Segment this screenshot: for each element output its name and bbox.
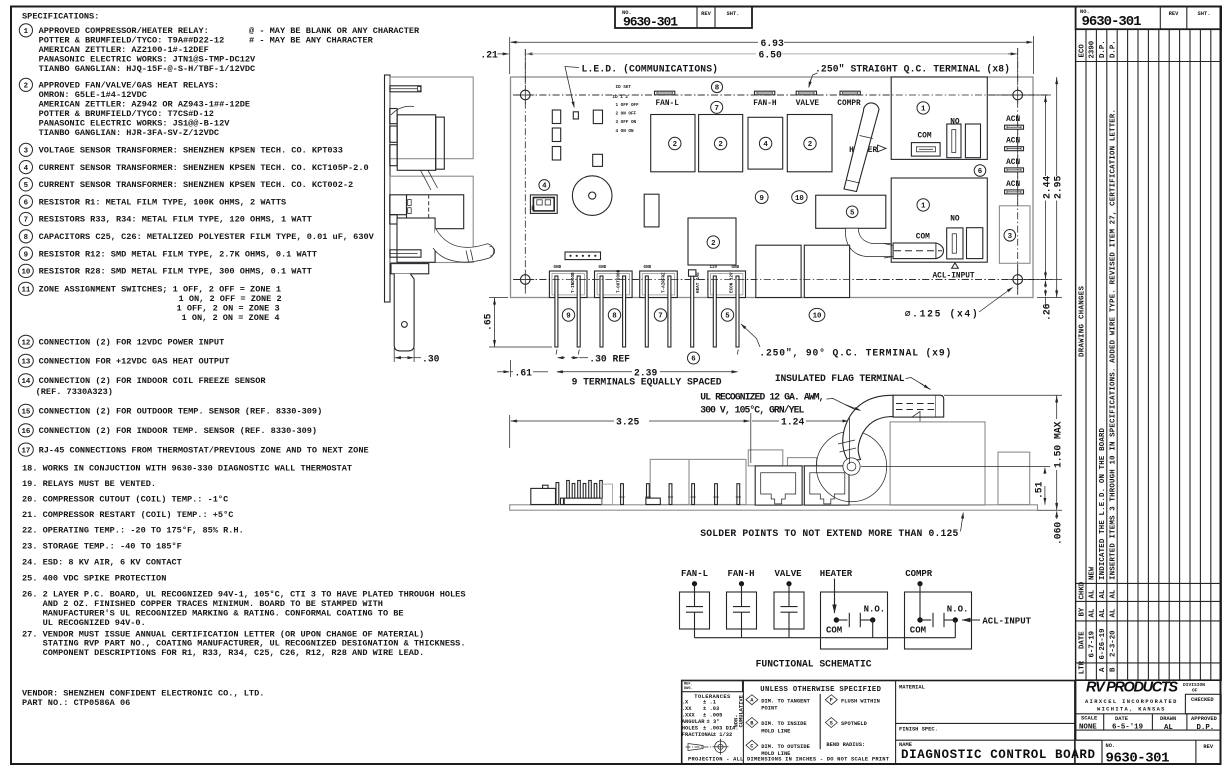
node ACL-INPUT <box>962 619 980 621</box>
svg-text:4: 4 <box>763 141 768 149</box>
svg-text:3: 3 <box>1008 233 1013 241</box>
svg-text:HOLES: HOLES <box>682 726 699 732</box>
svg-text:D.P.: D.P. <box>1197 724 1215 732</box>
svg-text:COMPONENT DESCRIPTIONS FOR R1,: COMPONENT DESCRIPTIONS FOR R1, R33, R34,… <box>43 648 425 658</box>
svg-text:RJ-45 CONNECTIONS FROM THERMOS: RJ-45 CONNECTIONS FROM THERMOSTAT/PREVIO… <box>39 445 369 455</box>
wire loop dome <box>816 431 886 501</box>
svg-text:1 ON, 2 ON = ZONE 4: 1 ON, 2 ON = ZONE 4 <box>182 313 280 323</box>
svg-text:RELAYS MUST BE VENTED.: RELAYS MUST BE VENTED. <box>43 479 156 489</box>
svg-text:11: 11 <box>21 287 30 295</box>
pin tick marks <box>556 350 557 355</box>
svg-text:(REF. 7330A323): (REF. 7330A323) <box>36 387 113 397</box>
company block <box>1076 679 1222 681</box>
projection symbols <box>688 744 703 751</box>
svg-text:.30: .30 <box>422 354 440 365</box>
QC tab lower profile <box>390 250 421 257</box>
wire <box>954 620 956 638</box>
dim 2.44 / 2.95 right <box>991 94 1051 96</box>
svg-text:D.P.: D.P. <box>1110 40 1118 58</box>
svg-text:RESISTOR R12: SMD METAL FILM T: RESISTOR R12: SMD METAL FILM TYPE, 2.7K … <box>39 249 317 259</box>
svg-text:DRAWN: DRAWN <box>1160 716 1176 722</box>
svg-text:ID SET: ID SET <box>616 85 632 90</box>
svg-text:12V: 12V <box>710 265 718 270</box>
svg-text:APPROVED FAN/VALVE/GAS HEAT RE: APPROVED FAN/VALVE/GAS HEAT RELAYS: <box>39 81 220 91</box>
svg-text:9: 9 <box>24 251 28 259</box>
svg-text:PANASONIC ELECTRIC WORKS: JS1@: PANASONIC ELECTRIC WORKS: JS1@@-B-12V <box>39 119 231 129</box>
svg-text:ID 1 2: ID 1 2 <box>613 95 629 100</box>
svg-text:MATERIAL: MATERIAL <box>899 685 925 691</box>
contact bars <box>920 619 931 621</box>
dim 6.50 <box>526 53 534 55</box>
svg-text:WICHITA, KANSAS: WICHITA, KANSAS <box>1097 707 1165 713</box>
relay block right elevation <box>890 422 985 505</box>
svg-text:AMERICAN ZETTLER: AZ942 OR AZ9: AMERICAN ZETTLER: AZ942 OR AZ943-1##-12D… <box>39 100 250 110</box>
connector T-INDOOR <box>549 271 587 298</box>
svg-text:6-5-'19: 6-5-'19 <box>1112 724 1143 732</box>
svg-text:1: 1 <box>24 28 29 36</box>
two square components bottom middle <box>756 245 801 297</box>
centerline overlays <box>513 94 1048 96</box>
svg-text:T-INDOOR: T-INDOOR <box>571 272 576 293</box>
svg-text:.X: .X <box>682 700 689 706</box>
svg-text:.250" STRAIGHT Q.C. TERMINAL (: .250" STRAIGHT Q.C. TERMINAL (x8) <box>815 64 1010 75</box>
mounting holes x4 <box>521 90 531 100</box>
svg-text:16: 16 <box>21 428 30 436</box>
svg-text:BEND RADIUS:: BEND RADIUS: <box>826 742 865 748</box>
svg-text:COM: COM <box>916 233 930 241</box>
svg-text:DWG.: DWG. <box>684 687 693 691</box>
small component rects left <box>552 110 560 124</box>
svg-text:SHT.: SHT. <box>1198 11 1211 17</box>
svg-text:AIRXCEL INCORPORATED: AIRXCEL INCORPORATED <box>1085 699 1177 705</box>
svg-text:NONE: NONE <box>1079 724 1097 732</box>
svg-text:.26: .26 <box>1042 303 1053 321</box>
svg-text:CHECKED: CHECKED <box>1191 697 1214 703</box>
wire <box>694 584 696 607</box>
svg-text:2: 2 <box>718 141 722 149</box>
wire <box>741 584 743 607</box>
svg-text:± 1/32: ± 1/32 <box>713 732 732 738</box>
svg-text:ACN: ACN <box>1006 181 1020 189</box>
svg-text:DIVISION: DIVISION <box>1183 682 1205 688</box>
svg-text:CONNECTION (2) FOR OUTDOOR TEM: CONNECTION (2) FOR OUTDOOR TEMP. SENSOR … <box>39 407 323 417</box>
bracket hole <box>402 322 408 328</box>
flag terminal into COM <box>893 243 936 259</box>
svg-text:1 ON, 2 OFF = ZONE 2: 1 ON, 2 OFF = ZONE 2 <box>179 294 282 304</box>
wire <box>788 584 790 607</box>
svg-text:HEATER: HEATER <box>820 569 853 579</box>
ACN terminal 1 <box>1005 125 1024 129</box>
svg-text:1 OFF, 2 ON = ZONE 3: 1 OFF, 2 ON = ZONE 3 <box>177 304 280 314</box>
ref dwg box <box>682 681 743 692</box>
circled 6 ACN <box>974 165 986 177</box>
svg-text:6: 6 <box>691 356 696 364</box>
svg-text:COMPRESSOR RESTART (COIL) TEMP: COMPRESSOR RESTART (COIL) TEMP.: +5°C <box>43 510 234 520</box>
wire <box>741 612 743 638</box>
svg-text:VALVE: VALVE <box>775 569 803 579</box>
contact bars <box>836 619 847 621</box>
svg-text:COMPR: COMPR <box>905 569 933 579</box>
lower relay body profile <box>397 218 435 262</box>
relay contact COMPR <box>905 592 972 649</box>
svg-text:1 OFF OFF: 1 OFF OFF <box>616 103 640 108</box>
material / finish / name boxes <box>896 722 1075 724</box>
svg-text:± 3°: ± 3° <box>707 719 720 725</box>
ext lines <box>509 37 511 74</box>
circled refs 9 10 <box>755 191 768 204</box>
ACN terminal 2 <box>1005 147 1024 151</box>
relay K4 compr <box>787 115 832 172</box>
svg-text:6: 6 <box>978 168 983 176</box>
svg-text:2 ON OFF: 2 ON OFF <box>616 111 637 116</box>
svg-text:2390: 2390 <box>1089 40 1097 58</box>
bottom number box <box>1101 740 1103 764</box>
mounting bracket <box>391 264 429 274</box>
left small component <box>531 488 556 504</box>
circled refs 8 7 <box>711 81 722 92</box>
dim .61 / 2.39 <box>510 360 512 377</box>
svg-text:19.: 19. <box>22 479 37 489</box>
ground wire tube <box>843 395 893 460</box>
svg-text:SOLDER POINTS TO NOT EXTEND MO: SOLDER POINTS TO NOT EXTEND MORE THAN 0.… <box>700 528 958 539</box>
relay block profile (gray) <box>390 77 473 159</box>
wire common bus <box>695 637 956 639</box>
QC terminal tab profile <box>390 86 421 92</box>
ACN terminal profiles <box>390 109 397 124</box>
NO terminal lower <box>947 228 963 259</box>
svg-text:5: 5 <box>725 313 730 321</box>
svg-text:DIM. TO TANGENT: DIM. TO TANGENT <box>761 698 810 704</box>
svg-text:B: B <box>1110 667 1118 672</box>
heater wire below transformer <box>845 228 893 256</box>
svg-text:± .03: ± .03 <box>703 706 719 712</box>
heater wire profile <box>421 170 438 190</box>
svg-text:A: A <box>1099 667 1107 672</box>
svg-text:17: 17 <box>21 447 30 455</box>
svg-text:9630-301: 9630-301 <box>1082 14 1142 30</box>
svg-text:AL: AL <box>1099 608 1107 617</box>
svg-text:VALVE: VALVE <box>796 100 820 108</box>
svg-text:N.O.: N.O. <box>947 605 969 615</box>
svg-text:REV: REV <box>701 11 711 17</box>
svg-text:.51: .51 <box>1034 481 1045 499</box>
svg-text:2: 2 <box>673 141 677 149</box>
svg-text:INSULATED FLAG TERMINAL: INSULATED FLAG TERMINAL <box>775 373 905 384</box>
svg-text:SPOTWELD: SPOTWELD <box>841 721 868 727</box>
svg-text:2: 2 <box>808 141 812 149</box>
top right number box <box>1076 7 1222 30</box>
svg-text:AL: AL <box>1164 724 1173 732</box>
ACN terminal 4 <box>1005 190 1024 194</box>
svg-text:GND: GND <box>554 265 562 270</box>
.250 90deg QC label <box>741 324 757 339</box>
svg-text:DATE: DATE <box>1115 716 1129 722</box>
svg-text:COMPR: COMPR <box>837 100 861 108</box>
svg-text:25.: 25. <box>22 574 37 584</box>
svg-text:CAPACITORS C25, C26: METALIZED: CAPACITORS C25, C26: METALIZED POLYESTER… <box>39 232 375 242</box>
transformer profile <box>407 195 464 229</box>
svg-text:CONNECTION (2) FOR 12VDC POWER: CONNECTION (2) FOR 12VDC POWER INPUT <box>39 338 225 348</box>
svg-text:INDICATED THE L.E.D. ON THE BO: INDICATED THE L.E.D. ON THE BOARD <box>1099 427 1107 580</box>
svg-text:CURRENT SENSOR TRANSFORMER: SH: CURRENT SENSOR TRANSFORMER: SHENZHEN KPS… <box>39 163 369 173</box>
svg-text:HEAT GAS: HEAT GAS <box>696 272 701 293</box>
svg-text:24.: 24. <box>22 557 37 567</box>
svg-text:FLUSH WITHIN: FLUSH WITHIN <box>841 698 880 704</box>
svg-text:12: 12 <box>21 340 30 348</box>
svg-text:PANASONIC ELECTRIC WORKS: JTN1: PANASONIC ELECTRIC WORKS: JTN1@S-TMP-DC1… <box>39 55 256 65</box>
heater wire tube <box>844 103 879 192</box>
COM QC pad upper <box>911 143 940 157</box>
wire <box>694 612 696 638</box>
svg-text:BY: BY <box>1078 607 1086 616</box>
terminal pins 90deg x9 <box>555 276 558 347</box>
top-center drawing number box <box>615 7 752 30</box>
svg-text:NEW: NEW <box>1089 566 1097 580</box>
svg-text:ECON 12V: ECON 12V <box>730 272 735 293</box>
dim .65 left <box>489 297 508 299</box>
svg-text:POTTER & BRUMFIELD/TYCO: T9A##: POTTER & BRUMFIELD/TYCO: T9A##D22-12 <box>39 36 225 46</box>
svg-text:APPROVED COMPRESSOR/HEATER REL: APPROVED COMPRESSOR/HEATER RELAY: <box>39 26 209 36</box>
dim .30 bracket width <box>393 348 395 362</box>
dim 3.25 / 1.24 <box>509 415 511 448</box>
RJ45 jacks <box>748 450 783 466</box>
connector ECON 12V <box>708 271 746 298</box>
svg-text:400 VDC SPIKE PROTECTION: 400 VDC SPIKE PROTECTION <box>43 574 167 584</box>
svg-text:.30 REF: .30 REF <box>589 354 630 365</box>
spare terminal upper <box>965 124 980 158</box>
svg-text:4: 4 <box>542 183 547 191</box>
svg-text:2: 2 <box>711 240 715 248</box>
svg-text:REV: REV <box>1203 744 1213 750</box>
svg-text:4 ON ON: 4 ON ON <box>616 129 634 134</box>
svg-text:1.50 MAX: 1.50 MAX <box>1053 421 1064 468</box>
svg-text:5: 5 <box>24 182 29 190</box>
DIP switch SW1 <box>530 195 557 214</box>
relay body profile <box>397 115 436 171</box>
svg-text:D.P.: D.P. <box>1099 40 1107 58</box>
wire <box>919 584 921 620</box>
dim .51 <box>861 466 1050 468</box>
svg-text:.060: .060 <box>1053 522 1064 545</box>
svg-text:REV: REV <box>1169 11 1179 17</box>
svg-text:6.93: 6.93 <box>761 38 784 49</box>
voltage sensor rect 3 <box>999 206 1030 263</box>
svg-text:AL: AL <box>1099 589 1107 598</box>
svg-text:ANGULAR: ANGULAR <box>682 719 705 725</box>
svg-text:6-26-19: 6-26-19 <box>1099 628 1107 659</box>
relay K2 <box>699 115 743 172</box>
dim 6.93 <box>511 41 519 43</box>
relay K1 FAN-L <box>651 115 695 172</box>
relay contact HEATER <box>821 592 888 649</box>
svg-text:COMPRESSOR CUTOUT (COIL) TEMP.: COMPRESSOR CUTOUT (COIL) TEMP.: -1°C <box>43 495 229 505</box>
svg-text:3 OFF ON: 3 OFF ON <box>616 120 637 125</box>
svg-text:CURRENT SENSOR TRANSFORMER: SH: CURRENT SENSOR TRANSFORMER: SHENZHEN KPS… <box>39 180 354 190</box>
svg-text:AMERICAN ZETTLER: AZ2100-1#-12: AMERICAN ZETTLER: AZ2100-1#-12DEF <box>39 45 209 55</box>
svg-text:N.O.: N.O. <box>864 605 886 615</box>
svg-text:T-OUTDOOR: T-OUTDOOR <box>616 269 621 293</box>
connector T-AIRFRZ <box>640 271 678 298</box>
buzzer <box>572 176 612 216</box>
svg-text:OMRON: G5LE-1#4-12VDC: OMRON: G5LE-1#4-12VDC <box>39 90 147 100</box>
node N.O. compr <box>953 617 958 622</box>
svg-text:DIM. TO OUTSIDE: DIM. TO OUTSIDE <box>761 744 810 750</box>
svg-text:FAN-L: FAN-L <box>656 100 680 108</box>
svg-text:L.E.D. (COMMUNICATIONS): L.E.D. (COMMUNICATIONS) <box>582 64 719 75</box>
svg-text:COM: COM <box>918 132 932 140</box>
svg-text:DRAWING CHANGES: DRAWING CHANGES <box>1078 285 1086 357</box>
svg-text:1.24: 1.24 <box>781 417 804 428</box>
svg-text:FAN-H: FAN-H <box>728 569 755 579</box>
lower relay block profile (gray) <box>390 176 473 262</box>
svg-text:.21: .21 <box>480 50 498 61</box>
svg-text:POINT: POINT <box>761 706 778 712</box>
svg-text:TIANBO GANGLIAN: HJQ-15F-@-S-H: TIANBO GANGLIAN: HJQ-15F-@-S-H/TBF-1/12V… <box>39 64 256 74</box>
vertical rect component <box>644 194 659 227</box>
svg-text:⌀.125 (x4): ⌀.125 (x4) <box>905 309 978 320</box>
relay block lower with COM/NO terminals <box>891 178 987 262</box>
svg-text:GND: GND <box>644 265 652 270</box>
svg-text:POTTER & BRUMFIELD/TYCO: T7CS#: POTTER & BRUMFIELD/TYCO: T7CS#D-12 <box>39 109 214 119</box>
svg-text:8: 8 <box>715 85 720 93</box>
svg-text:1: 1 <box>921 203 926 211</box>
svg-text:UL RECOGNIZED 12 GA. AWM,: UL RECOGNIZED 12 GA. AWM, <box>700 392 824 403</box>
relay coil FAN-H <box>727 592 757 629</box>
svg-text:ECO: ECO <box>1078 44 1086 58</box>
svg-text:6-7-19: 6-7-19 <box>1089 631 1097 658</box>
svg-text:.XXX: .XXX <box>682 713 696 719</box>
svg-text:5: 5 <box>850 210 855 218</box>
svg-text:10: 10 <box>813 313 822 321</box>
svg-text:MOLD LINE: MOLD LINE <box>761 728 791 734</box>
svg-text:GND: GND <box>732 265 740 270</box>
PCB outline <box>511 77 1034 298</box>
svg-text:FAN-H: FAN-H <box>753 100 777 108</box>
circled 10 bottom <box>809 308 825 321</box>
svg-text:UNLESS OTHERWISE SPECIFIED: UNLESS OTHERWISE SPECIFIED <box>760 686 881 694</box>
insulated flag terminal <box>893 395 936 417</box>
svg-text:SPECIFICATIONS:: SPECIFICATIONS: <box>22 12 99 22</box>
svg-text:ON: ON <box>532 205 537 211</box>
header pins <box>564 498 602 504</box>
dim 1.50 MAX <box>944 394 1062 396</box>
svg-text:2: 2 <box>24 83 28 91</box>
svg-text:1: 1 <box>921 106 926 114</box>
svg-text:PART NO.: CTP0586A 06: PART NO.: CTP0586A 06 <box>22 698 130 708</box>
svg-text:ACN: ACN <box>1006 138 1020 146</box>
svg-text:FUNCTIONAL SCHEMATIC: FUNCTIONAL SCHEMATIC <box>756 659 872 670</box>
SIP header 5 pins <box>565 252 601 260</box>
svg-text:27.: 27. <box>22 629 37 639</box>
svg-text:8: 8 <box>24 234 29 242</box>
svg-text:6: 6 <box>24 199 29 207</box>
svg-text:9: 9 <box>759 195 763 203</box>
svg-text:13: 13 <box>21 359 30 367</box>
svg-text:OF: OF <box>1192 688 1198 694</box>
svg-text:AL: AL <box>1110 608 1118 617</box>
svg-text:MOLD LINE: MOLD LINE <box>761 751 791 757</box>
spare terminal lower <box>967 228 983 259</box>
svg-text:FAN-L: FAN-L <box>681 569 708 579</box>
svg-text:8: 8 <box>612 313 617 321</box>
svg-text:@ - MAY BE BLANK OR ANY CHARAC: @ - MAY BE BLANK OR ANY CHARACTER <box>249 26 420 36</box>
relay K3 valve <box>748 117 783 169</box>
svg-text:3: 3 <box>24 148 29 156</box>
svg-text:300 V, 105°C, GRN/YEL: 300 V, 105°C, GRN/YEL <box>700 405 804 416</box>
svg-text:APPROVED: APPROVED <box>1191 716 1218 722</box>
svg-text:RESISTORS R33, R34: METAL FILM: RESISTORS R33, R34: METAL FILM TYPE, 120… <box>39 215 312 225</box>
NO terminal upper <box>947 124 961 158</box>
svg-text:7: 7 <box>658 313 662 321</box>
svg-text:ESD: 8 KV AIR, 6 KV CONTACT: ESD: 8 KV AIR, 6 KV CONTACT <box>43 557 182 567</box>
svg-text:ACL-INPUT: ACL-INPUT <box>982 617 1031 627</box>
wire arc top <box>391 106 414 115</box>
svg-text:AL: AL <box>1089 608 1097 617</box>
centerlines dash-dot <box>513 94 1048 96</box>
QC terminals straight row <box>655 91 675 95</box>
svg-text:NO.: NO. <box>1106 743 1116 749</box>
svg-text:RESISTOR R28: SMD METAL FILM T: RESISTOR R28: SMD METAL FILM TYPE, 300 O… <box>39 267 312 277</box>
svg-text:FRACTIONAL: FRACTIONAL <box>682 732 714 738</box>
specifications text column <box>19 12 466 708</box>
transformer T5 <box>816 195 886 228</box>
svg-text:10: 10 <box>21 269 30 277</box>
relay coil VALVE <box>774 592 804 629</box>
svg-text:AL: AL <box>1110 589 1118 598</box>
node COM heater <box>834 617 839 622</box>
svg-text:.61: .61 <box>515 368 533 379</box>
svg-text:20.: 20. <box>22 495 37 505</box>
svg-text:9630-301: 9630-301 <box>1106 750 1170 766</box>
svg-text:.XX: .XX <box>682 706 692 712</box>
svg-text:± .005: ± .005 <box>703 713 722 719</box>
svg-text:.250", 90° Q.C. TERMINAL (x9): .250", 90° Q.C. TERMINAL (x9) <box>759 347 951 358</box>
svg-text:CUMULATIVE: CUMULATIVE <box>739 694 745 727</box>
rect with circled 2 <box>688 218 736 265</box>
svg-text:3.25: 3.25 <box>616 417 639 428</box>
svg-text:7: 7 <box>714 105 718 113</box>
svg-text:9630-301: 9630-301 <box>623 15 678 30</box>
heat gas pin base <box>689 270 696 276</box>
svg-text:9 TERMINALS EQUALLY SPACED: 9 TERMINALS EQUALLY SPACED <box>572 376 722 387</box>
svg-text:COM: COM <box>910 626 926 636</box>
grommet <box>843 458 860 475</box>
svg-text:NO: NO <box>950 215 960 223</box>
svg-text:VOLTAGE SENSOR TRANSFORMER: SH: VOLTAGE SENSOR TRANSFORMER: SHENZHEN KPS… <box>39 146 343 156</box>
svg-text:RESISTOR R1: METAL FILM TYPE,: RESISTOR R1: METAL FILM TYPE, 100K OHMS,… <box>39 197 287 207</box>
svg-text:CONNECTION FOR +12VDC GAS HEAT: CONNECTION FOR +12VDC GAS HEAT OUTPUT <box>39 357 230 367</box>
svg-text:SHT.: SHT. <box>727 11 740 17</box>
svg-text:F: F <box>830 698 833 704</box>
node COM compr <box>917 617 922 622</box>
svg-text:COM: COM <box>826 626 842 636</box>
wire <box>788 612 790 638</box>
svg-text:2.95: 2.95 <box>1053 176 1064 199</box>
ACN terminal 3 <box>1005 168 1024 172</box>
svg-text:18.: 18. <box>22 463 37 473</box>
svg-text:14: 14 <box>21 378 30 386</box>
svg-text:PROJECTION - ALL DIMENSIONS IN: PROJECTION - ALL DIMENSIONS IN INCHES - … <box>688 757 890 763</box>
relay block elevation gray <box>650 459 746 504</box>
svg-text:TIANBO GANGLIAN: HJR-3FA-SV-Z/: TIANBO GANGLIAN: HJR-3FA-SV-Z/12VDC <box>39 128 220 138</box>
svg-text:INSERTED ITEMS 3 THROUGH 10 IN: INSERTED ITEMS 3 THROUGH 10 IN SPECIFICA… <box>1110 109 1118 580</box>
svg-text:RV PRODUCTS: RV PRODUCTS <box>1086 680 1178 696</box>
svg-text:22.: 22. <box>22 526 37 536</box>
svg-text:CHKD: CHKD <box>1078 581 1086 599</box>
svg-text:DIAGNOSTIC CONTROL BOARD: DIAGNOSTIC CONTROL BOARD <box>901 748 1095 762</box>
circled 4 <box>539 180 550 191</box>
svg-text:CONNECTION (2) FOR INDOOR TEMP: CONNECTION (2) FOR INDOOR TEMP. SENSOR (… <box>39 426 317 436</box>
